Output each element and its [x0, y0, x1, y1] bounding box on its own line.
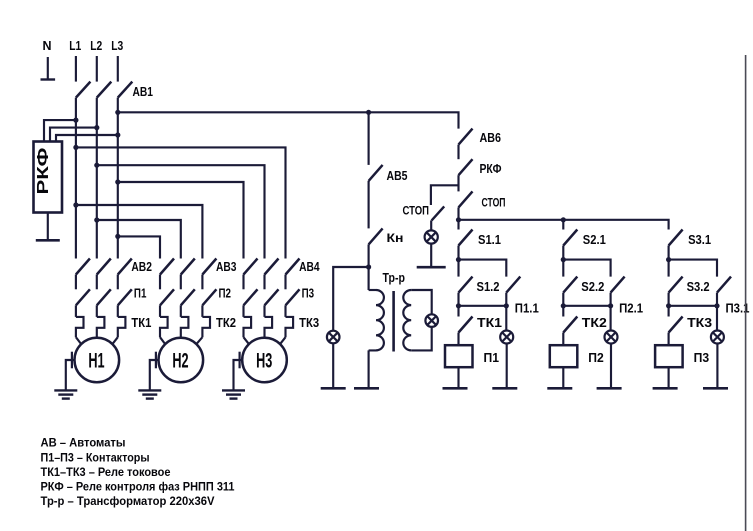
- node L1-g3 junction: [73, 145, 78, 150]
- breaker АВ4 pole 1: [244, 259, 258, 275]
- wire feed group3 col2: [97, 165, 265, 258]
- wire STOP-lamp: [430, 220, 432, 230]
- motor frame tick: [239, 352, 241, 369]
- contactor П2 pole 2: [181, 289, 195, 305]
- wire motor ground lead: [150, 360, 159, 390]
- switch S2.2 label: [581, 280, 604, 294]
- wire: [457, 293, 459, 317]
- wire П1.1 lamp lead: [505, 293, 507, 331]
- breaker AB1 pole 3: [118, 82, 133, 98]
- node L3-RKF junction: [115, 132, 120, 137]
- switch S1.2: [459, 277, 473, 293]
- wire AB6-RKF: [457, 145, 459, 160]
- contact П3.1 label: [726, 302, 750, 316]
- svg-text:П3: П3: [694, 350, 710, 365]
- node row junction 3c: [714, 303, 719, 308]
- wire branch П2.1 top: [563, 260, 610, 277]
- svg-text:L1: L1: [69, 38, 81, 53]
- lamp HL2 on secondary: [425, 314, 438, 327]
- wire lamp П3.1 down: [716, 344, 718, 389]
- svg-text:РКФ: РКФ: [480, 161, 502, 176]
- relay RKF label: [35, 148, 52, 195]
- node L2-RKF junction: [94, 125, 99, 130]
- ground under Н3: [222, 390, 245, 398]
- contact П1.1 label: [515, 302, 539, 316]
- legend line 5: [41, 494, 215, 508]
- contactor П1 pole 2: [97, 289, 111, 305]
- thermal relay ТК2 element: [181, 317, 189, 337]
- thermal relay ТК3 label: [299, 315, 319, 330]
- button STOP label: [403, 204, 430, 218]
- wire: [562, 293, 564, 317]
- svg-text:Н1: Н1: [88, 349, 104, 373]
- svg-text:ТК1: ТК1: [477, 316, 502, 330]
- contactor П1 pole 1: [76, 289, 90, 305]
- svg-text:П2.1: П2.1: [619, 302, 643, 316]
- breaker АВ4 label: [299, 259, 320, 274]
- svg-text:П2: П2: [219, 286, 232, 301]
- contact ТК2 label: [582, 316, 607, 330]
- contactor П3 pole 1: [244, 289, 258, 305]
- coil П3: [655, 345, 683, 367]
- button Kn: [369, 228, 383, 244]
- motor frame tick: [71, 352, 73, 369]
- transformer Tr-r core: [392, 291, 395, 352]
- wire N down-lead: [47, 57, 49, 79]
- thermal relay ТК2 element: [202, 317, 210, 337]
- thermal relay ТК3 element: [286, 317, 294, 337]
- wire: [117, 305, 119, 317]
- wire: [159, 275, 161, 290]
- wire HL3 down: [430, 244, 432, 268]
- wire: [562, 333, 564, 346]
- svg-text:L2: L2: [90, 38, 102, 53]
- wire: [562, 246, 564, 277]
- contact П2.1 label: [619, 302, 643, 316]
- svg-text:S2.1: S2.1: [583, 233, 606, 247]
- chassis bar under lamp П2.1: [597, 387, 622, 390]
- ground under Н1: [54, 390, 77, 398]
- thermal relay ТК1 element: [118, 317, 126, 337]
- chassis bar under HL3: [417, 266, 446, 269]
- switch AB5: [369, 165, 383, 181]
- node row junction 3b: [666, 303, 671, 308]
- breaker АВ2 pole 1: [76, 259, 90, 275]
- contactor П1 pole 3: [118, 289, 132, 305]
- node L1 label: [69, 38, 81, 53]
- switch S2.2: [563, 277, 577, 293]
- wire feed group3 col1: [118, 182, 244, 259]
- wire feed group2 col1: [118, 236, 160, 258]
- wire branch П3.1 top: [669, 260, 717, 277]
- breaker АВ4 pole 3: [286, 259, 300, 275]
- wire: [242, 305, 244, 317]
- svg-text:СТОП: СТОП: [482, 196, 506, 210]
- node L2-g3 junction: [94, 163, 99, 168]
- wire: [96, 305, 98, 317]
- wire: [457, 333, 459, 346]
- wire row link 3: [669, 305, 717, 307]
- svg-text:Кн: Кн: [387, 231, 404, 245]
- wire: [117, 275, 119, 290]
- wire feed group2 col2: [97, 220, 181, 259]
- switch S1.1: [459, 230, 473, 246]
- motor Н2: [159, 338, 204, 383]
- node row junction 2c: [608, 303, 613, 308]
- node row junction 1b: [456, 303, 461, 308]
- svg-text:L3: L3: [111, 38, 123, 53]
- contactor П2 label: [219, 286, 232, 301]
- chassis bar under П3: [653, 387, 678, 390]
- svg-text:АВ – Автоматы: АВ – Автоматы: [41, 435, 126, 449]
- contact RKF label: [480, 161, 502, 176]
- svg-text:АВ2: АВ2: [131, 259, 152, 274]
- contactor П3 pole 2: [265, 289, 279, 305]
- node N label: [43, 38, 52, 53]
- wire motor entry right: [112, 337, 117, 344]
- thermal relay ТК1 element: [97, 317, 105, 337]
- svg-text:ТК1: ТК1: [131, 315, 151, 330]
- chassis bar under П2: [547, 387, 572, 390]
- node L3-g2 junction: [115, 234, 120, 239]
- node branch junction 1a: [456, 257, 461, 262]
- contact ТК3: [669, 317, 683, 333]
- wire: [75, 305, 77, 317]
- contactor П1 label: [134, 286, 147, 301]
- thermal relay ТК1 element: [76, 317, 84, 337]
- wire RKF tap 1: [44, 120, 76, 141]
- coil П1 label: [484, 350, 500, 365]
- wire feed group2 col3: [76, 205, 202, 259]
- node row junction 1c: [504, 303, 509, 308]
- breaker АВ4 pole 2: [265, 259, 279, 275]
- svg-text:П1: П1: [484, 350, 500, 365]
- motor Н1: [75, 338, 120, 383]
- svg-text:АВ6: АВ6: [480, 130, 502, 145]
- wire: [263, 275, 265, 290]
- chassis bar under П1: [443, 387, 468, 390]
- coil П2: [550, 345, 578, 367]
- wire L2 bus: [96, 98, 98, 259]
- breaker АВ3 pole 3: [202, 259, 216, 275]
- legend line 4: [41, 480, 235, 494]
- svg-text:S2.2: S2.2: [581, 280, 604, 294]
- wire RKF down-lead: [47, 213, 49, 241]
- contact П3.1: [717, 277, 731, 293]
- frame border right: [745, 55, 747, 531]
- svg-text:ТК2: ТК2: [216, 315, 236, 330]
- wire motor entry left: [160, 337, 165, 344]
- switch S3.2: [669, 277, 683, 293]
- wire: [242, 275, 244, 290]
- wire motor entry left: [76, 337, 81, 344]
- lamp П1.1: [500, 331, 513, 344]
- svg-text:ТК3: ТК3: [299, 315, 319, 330]
- breaker АВ3 pole 2: [181, 259, 195, 275]
- node row junction 2b: [561, 303, 566, 308]
- node L3-control junction: [115, 110, 120, 115]
- relay RKF box: [34, 142, 63, 213]
- lamp П2.1: [605, 331, 618, 344]
- legend line 1: [41, 435, 126, 449]
- wire RKF tap 2: [50, 128, 97, 142]
- contact П1.1: [506, 277, 520, 293]
- wire row link 1: [459, 305, 507, 307]
- motor Н3: [242, 338, 287, 383]
- wire: [263, 305, 265, 317]
- svg-text:П1–П3 – Контакторы: П1–П3 – Контакторы: [41, 450, 150, 464]
- contactor П3 label: [302, 286, 315, 301]
- wire AB5 lead: [368, 112, 370, 165]
- wire: [201, 305, 203, 317]
- wire motor entry left: [244, 337, 249, 344]
- svg-text:ТК1–ТК3 – Реле токовое: ТК1–ТК3 – Реле токовое: [41, 465, 171, 479]
- breaker AB1 label: [133, 84, 154, 99]
- svg-text:АВ5: АВ5: [387, 168, 408, 183]
- svg-text:S3.1: S3.1: [688, 233, 711, 247]
- wire: [201, 275, 203, 290]
- wire Kn-transformer: [368, 244, 370, 290]
- wire motor entry mid: [180, 336, 182, 339]
- svg-text:Н2: Н2: [172, 349, 188, 373]
- contact ТК3 label: [687, 316, 712, 330]
- button STOP: [432, 206, 445, 220]
- svg-text:П1: П1: [134, 286, 147, 301]
- node branch junction 2a: [561, 257, 566, 262]
- wire П3.1 lamp lead: [716, 293, 718, 331]
- node L3-g3 junction: [115, 179, 120, 184]
- chassis bar under lamp П3.1: [703, 387, 728, 390]
- wire control rail: [459, 220, 669, 230]
- svg-text:Н3: Н3: [256, 349, 272, 373]
- node rail junction C2: [561, 217, 566, 222]
- wire: [159, 305, 161, 317]
- svg-text:ТК2: ТК2: [582, 316, 607, 330]
- breaker AB6: [459, 129, 473, 145]
- node control tap: [366, 110, 371, 115]
- breaker АВ2 pole 3: [118, 259, 132, 275]
- transformer Tr-r primary: [369, 290, 384, 388]
- wire lamp П2.1 down: [610, 344, 612, 389]
- svg-text:П2: П2: [588, 350, 604, 365]
- chassis bar under lamp П1.1: [492, 387, 517, 390]
- wire coil П2 down: [562, 367, 564, 388]
- wire C2 lead: [562, 220, 564, 230]
- legend line 3: [41, 465, 171, 479]
- wire: [180, 305, 182, 317]
- svg-text:АВ4: АВ4: [299, 259, 320, 274]
- wire: [180, 275, 182, 290]
- switch S2.1: [563, 230, 577, 246]
- breaker AB6 label: [480, 130, 502, 145]
- svg-text:РКФ – Реле контроля фаз РНПП 3: РКФ – Реле контроля фаз РНПП 311: [41, 480, 235, 494]
- breaker AB1 pole 1: [76, 82, 91, 98]
- lamp HL3 under STOP: [425, 230, 438, 243]
- wire motor ground lead: [66, 360, 75, 390]
- transformer Tr-r label: [383, 270, 406, 285]
- switch S1.1 label: [478, 233, 501, 247]
- svg-text:АВ1: АВ1: [133, 84, 154, 99]
- svg-text:АВ3: АВ3: [216, 259, 237, 274]
- contactor П2 pole 3: [202, 289, 216, 305]
- wire L1 lead: [75, 56, 77, 82]
- switch AB5 label: [387, 168, 408, 183]
- wire row link 2: [563, 305, 610, 307]
- contact STOP: [459, 191, 473, 207]
- svg-text:Тр-р: Тр-р: [383, 270, 406, 285]
- svg-text:S3.2: S3.2: [687, 280, 710, 294]
- contactor П3 pole 3: [286, 289, 300, 305]
- breaker АВ3 label: [216, 259, 237, 274]
- switch S3.1 label: [688, 233, 711, 247]
- chassis bar under HL1: [321, 387, 346, 390]
- chassis bar under Tr-r: [354, 387, 379, 390]
- svg-text:S1.1: S1.1: [478, 233, 501, 247]
- contact STOP label: [482, 196, 506, 210]
- wire П2.1 lamp lead: [610, 293, 612, 331]
- svg-text:СТОП: СТОП: [403, 204, 430, 218]
- coil П1: [445, 345, 473, 367]
- contact ТК2: [563, 317, 577, 333]
- wire lamp HL1 branch: [333, 267, 368, 331]
- wire branch П1.1 top: [459, 260, 507, 277]
- breaker AB1 pole 2: [97, 82, 112, 98]
- chassis bar under RKF: [36, 239, 60, 242]
- wire motor entry right: [196, 337, 202, 344]
- contact ТК1: [459, 317, 473, 333]
- ground under Н2: [138, 390, 161, 398]
- breaker АВ2 pole 2: [97, 259, 111, 275]
- contact ТК1 label: [477, 316, 502, 330]
- wire feed group3 col3: [76, 147, 286, 258]
- svg-text:РКФ: РКФ: [35, 148, 52, 195]
- wire lamp П1.1 down: [506, 344, 508, 389]
- svg-text:N: N: [43, 38, 52, 53]
- coil П3 label: [694, 350, 710, 365]
- contactor П2 pole 1: [160, 289, 174, 305]
- thermal relay ТК2 element: [160, 317, 168, 337]
- neutral bar under N: [41, 78, 56, 80]
- svg-text:П1.1: П1.1: [515, 302, 539, 316]
- node L1-RKF junction: [73, 118, 78, 123]
- wire: [668, 293, 670, 317]
- wire motor entry mid: [96, 336, 98, 339]
- transformer Tr-r secondary: [403, 290, 431, 350]
- wire STOP-junction: [457, 207, 459, 229]
- wire: [96, 275, 98, 290]
- wire control top line: [118, 112, 459, 128]
- wire: [284, 305, 286, 317]
- button Kn label: [387, 231, 404, 245]
- wire stop-button branch: [431, 185, 459, 205]
- wire RKF tap 3: [56, 135, 118, 142]
- svg-text:П3: П3: [302, 286, 315, 301]
- wire: [668, 246, 670, 277]
- thermal relay ТК2 label: [216, 315, 236, 330]
- wire: [457, 246, 459, 277]
- wire motor entry right: [280, 337, 285, 344]
- legend line 2: [41, 450, 150, 464]
- switch S2.1 label: [583, 233, 606, 247]
- node L3 label: [111, 38, 123, 53]
- wire motor ground lead: [234, 360, 243, 390]
- node L2 label: [90, 38, 102, 53]
- motor frame tick: [155, 352, 157, 369]
- wire coil П3 down: [668, 367, 670, 388]
- lamp HL1: [327, 331, 340, 344]
- node rail junction C1: [456, 217, 461, 222]
- node lamp branch junction: [366, 264, 371, 269]
- thermal relay ТК3 element: [244, 317, 252, 337]
- switch S1.2 label: [477, 280, 500, 294]
- breaker АВ3 pole 1: [160, 259, 174, 275]
- node branch junction 3a: [666, 257, 671, 262]
- wire coil П1 down: [457, 367, 459, 388]
- wire L3 bus: [117, 98, 119, 259]
- wire AB5-Kn: [368, 181, 370, 229]
- node L2-g2 junction: [94, 217, 99, 222]
- contact П2.1: [611, 277, 625, 293]
- switch S3.1: [669, 230, 683, 246]
- node L1-g2 junction: [73, 202, 78, 207]
- thermal relay ТК3 element: [265, 317, 273, 337]
- wire lamp HL1 down: [332, 343, 334, 388]
- coil П2 label: [588, 350, 604, 365]
- wire: [284, 275, 286, 290]
- wire RKF-STOP: [457, 175, 459, 191]
- switch S3.2 label: [687, 280, 710, 294]
- svg-text:S1.2: S1.2: [477, 280, 500, 294]
- wire motor entry mid: [263, 336, 265, 339]
- wire L1 bus: [75, 98, 77, 259]
- thermal relay ТК1 label: [131, 315, 151, 330]
- contact RKF: [459, 159, 473, 175]
- svg-text:Тр-р – Трансформатор 220х36V: Тр-р – Трансформатор 220х36V: [41, 494, 215, 508]
- breaker АВ2 label: [131, 259, 152, 274]
- svg-text:ТК3: ТК3: [687, 316, 712, 330]
- wire: [75, 275, 77, 290]
- lamp П3.1: [711, 331, 724, 344]
- wire: [668, 333, 670, 346]
- wire L3 lead: [117, 56, 119, 82]
- wire L2 lead: [96, 56, 98, 82]
